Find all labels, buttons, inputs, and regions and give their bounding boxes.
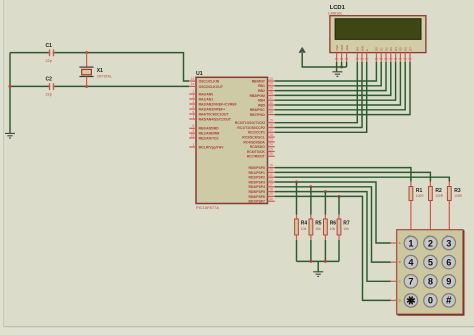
- svg-text:40: 40: [269, 110, 273, 114]
- wire: R7 bottom lead to rail: [338, 240, 340, 261]
- U1 right pin 35 RB2: [258, 86, 275, 93]
- svg-text:RD4/PSP4: RD4/PSP4: [248, 185, 265, 189]
- wire: LCD VEE down: [346, 62, 348, 67]
- wire: C2 net from left rail to OSC2: [10, 85, 189, 87]
- svg-text:3: 3: [193, 95, 195, 99]
- wire: RD2 to R3 column 3: [275, 177, 450, 181]
- svg-text:RD2/PSP2: RD2/PSP2: [248, 176, 265, 180]
- LCD1 pin E: [365, 49, 369, 62]
- svg-text:VSS: VSS: [335, 45, 339, 51]
- wire: LCD D3 to RB3: [275, 62, 391, 96]
- sheet border bottom: [4, 326, 474, 328]
- capacitor C2: [50, 84, 53, 88]
- svg-text:CRYSTAL: CRYSTAL: [97, 75, 112, 79]
- keypad button 3: [442, 236, 455, 249]
- svg-text:7: 7: [193, 115, 195, 119]
- node: junction C1 net / crystal top: [85, 51, 88, 54]
- wire: LCD RS to RC0: [275, 62, 358, 123]
- U1 right pin 29 RD6/PSP6: [248, 192, 274, 199]
- svg-text:13: 13: [191, 77, 195, 81]
- U1 right pin 40 RB7/PGD: [250, 110, 275, 117]
- svg-text:X1: X1: [97, 68, 103, 74]
- U1 right pin 15 RC0/T1OSO/T1CKI: [235, 119, 275, 126]
- svg-text:A: A: [399, 241, 401, 245]
- svg-text:D1: D1: [380, 47, 384, 51]
- svg-text:D6: D6: [404, 47, 408, 51]
- svg-text:RA5/AN4/SS/C2OUT: RA5/AN4/SS/C2OUT: [199, 117, 232, 121]
- power terminal arrow (+5V): [299, 47, 305, 52]
- svg-text:RS: RS: [356, 47, 360, 51]
- svg-text:B: B: [399, 260, 401, 264]
- wire: LCD E to RC2: [275, 62, 367, 133]
- svg-text:R4: R4: [301, 221, 308, 227]
- svg-text:28: 28: [269, 187, 273, 191]
- keypad row pin D: [391, 299, 402, 303]
- svg-text:C2: C2: [46, 76, 53, 82]
- svg-text:R6: R6: [330, 221, 337, 227]
- capacitor C1: [50, 51, 53, 55]
- wire: LCD D2 to RB2: [275, 62, 386, 91]
- U1 right pin 38 RB5: [258, 101, 275, 108]
- svg-text:RB5: RB5: [258, 103, 265, 107]
- svg-text:RA4/T0CKI/C1OUT: RA4/T0CKI/C1OUT: [199, 112, 230, 116]
- keypad row pin C: [391, 279, 402, 283]
- svg-text:RC0/T1OSO/T1CKI: RC0/T1OSO/T1CKI: [235, 121, 265, 125]
- svg-text:34: 34: [269, 82, 273, 86]
- keypad row pin A: [391, 241, 401, 245]
- svg-text:100R: 100R: [454, 194, 462, 198]
- svg-text:8: 8: [428, 277, 433, 287]
- svg-text:10: 10: [191, 134, 195, 138]
- wire: R5 top lead drop: [310, 187, 312, 215]
- ground (keypad pulldowns): [313, 272, 323, 277]
- wire: R2 to keypad column: [429, 206, 431, 230]
- U1 left pin 14 OSC2/CLKOUT: [189, 82, 224, 89]
- LCD1 pin RW: [360, 46, 364, 62]
- svg-text:RA0/AN0: RA0/AN0: [199, 92, 214, 96]
- svg-text:10k: 10k: [343, 227, 349, 231]
- svg-text:RB3/PGM: RB3/PGM: [249, 94, 265, 98]
- svg-text:RA2/AN2/VREF-/CVREF: RA2/AN2/VREF-/CVREF: [199, 102, 237, 106]
- LCD1 pin D5: [399, 47, 403, 62]
- LCD1 pin VSS: [335, 45, 339, 62]
- svg-text:RB4: RB4: [258, 99, 265, 103]
- U1 right pin 36 RB3/PGM: [249, 91, 274, 98]
- U1 right pin 37 RB4: [258, 96, 275, 103]
- svg-text:D5: D5: [399, 47, 403, 51]
- svg-text:14: 14: [191, 82, 195, 86]
- svg-text:RD5/PSP5: RD5/PSP5: [248, 190, 265, 194]
- svg-text:RD3/PSP3: RD3/PSP3: [248, 180, 265, 184]
- LCD1 pin D1: [380, 47, 384, 62]
- resistor R1 100R: [409, 182, 424, 206]
- resistor R6 10k: [324, 215, 337, 241]
- svg-text:RD6/PSP6: RD6/PSP6: [248, 195, 265, 199]
- node: junction rail R6: [324, 260, 327, 263]
- LCD1 screen: [335, 19, 421, 40]
- node: junction R4 on RD wire: [295, 181, 298, 184]
- wire: LCD D5 to RB5: [275, 62, 401, 105]
- wire: LCD VDD stub down: [341, 62, 343, 67]
- resistor R4 10k: [295, 215, 308, 241]
- svg-text:OSC1/CLKIN: OSC1/CLKIN: [199, 79, 220, 83]
- node: junction rail R5: [309, 260, 312, 263]
- svg-text:U1: U1: [196, 71, 203, 77]
- LCD1 pin D0: [375, 47, 379, 62]
- U1 left pin 9 RE1/AN6/WR: [189, 129, 220, 136]
- U1 right pin 21 RD2/PSP2: [248, 173, 274, 180]
- resistor R3 100R: [447, 182, 462, 206]
- svg-text:35: 35: [269, 86, 273, 90]
- U1 right pin 16 RC1/T1OSI/CCP2: [237, 123, 274, 130]
- U1 right pin 17 RC2/CCP1: [248, 128, 275, 135]
- svg-text:1: 1: [408, 238, 413, 248]
- resistor R5 10k: [309, 215, 322, 241]
- U1 left pin 13 OSC1/CLKIN: [189, 77, 219, 84]
- U1 left pin 3 RA1/AN1: [189, 95, 213, 102]
- wire: power rail to arrow: [302, 53, 346, 67]
- resistor R7 10k: [337, 215, 350, 241]
- svg-text:9: 9: [446, 277, 451, 287]
- svg-text:RC6/TX/CK: RC6/TX/CK: [247, 150, 265, 154]
- node: junction C2 net / left rail: [9, 85, 12, 88]
- svg-text:18: 18: [269, 133, 273, 137]
- svg-text:RB1: RB1: [258, 84, 265, 88]
- sheet margin strips: [0, 0, 4, 335]
- svg-text:OSC2/CLKOUT: OSC2/CLKOUT: [199, 85, 224, 89]
- svg-text:15: 15: [269, 119, 273, 123]
- U1 right pin 28 RD5/PSP5: [248, 187, 274, 194]
- svg-text:8: 8: [193, 124, 195, 128]
- U1 right pin 24 RC5/SDO: [250, 143, 275, 150]
- keypad button 4: [404, 255, 417, 268]
- keypad button 7: [404, 275, 417, 288]
- svg-text:4: 4: [193, 100, 195, 104]
- svg-text:VDD: VDD: [340, 44, 344, 51]
- svg-text:VEE: VEE: [345, 45, 349, 51]
- wire: LCD D4 to RB4: [275, 62, 396, 100]
- wire: pulldown ground rail: [297, 260, 340, 262]
- U1 right pin 18 RC3/SCK/SCL: [242, 133, 274, 140]
- svg-text:19: 19: [269, 163, 273, 167]
- node: junction C2 net / crystal bottom: [85, 85, 88, 88]
- crystal X1: [79, 53, 93, 87]
- svg-text:2: 2: [193, 90, 195, 94]
- svg-text:RD1/PSP1: RD1/PSP1: [248, 171, 265, 175]
- keypad button hash: [442, 294, 455, 307]
- U1 left pin 4 RA2/AN2/VREF-/CVREF: [189, 100, 236, 107]
- U1 left pin 10 RE2/AN7/CS: [189, 134, 219, 141]
- svg-text:4: 4: [408, 257, 414, 267]
- wire: RD3 to keypad row A: [275, 182, 391, 243]
- svg-text:10k: 10k: [315, 227, 321, 231]
- U1 right pin 33 RB0/INT: [252, 77, 275, 84]
- keypad row pin B: [391, 260, 401, 264]
- wire: R4 top lead drop: [296, 182, 298, 215]
- svg-text:100R: 100R: [416, 194, 424, 198]
- keypad button 1: [404, 236, 417, 249]
- node: junction R7 on RD wire: [338, 195, 341, 198]
- LCD1 pin D6: [404, 47, 408, 62]
- svg-text:RW: RW: [360, 46, 364, 51]
- LCD1 pin D7: [408, 47, 412, 62]
- U1 right pin 23 RC4/SDI/SDA: [243, 138, 274, 145]
- U1 left pin 7 RA5/AN4/SS/C2OUT: [189, 115, 232, 122]
- U1 right pin 30 RD7/PSP7: [248, 197, 274, 204]
- wire: LCD D6 to RB6: [275, 62, 406, 110]
- wire: LCD VSS to ground: [336, 62, 338, 72]
- svg-text:100R: 100R: [435, 194, 443, 198]
- ground (LCD VSS): [332, 72, 342, 77]
- svg-text:39: 39: [269, 106, 273, 110]
- wire: rail to ground: [317, 261, 319, 271]
- svg-text:RE1/AN6/WR: RE1/AN6/WR: [199, 132, 220, 136]
- svg-text:RC4/SDI/SDA: RC4/SDI/SDA: [243, 140, 265, 144]
- svg-text:38: 38: [269, 101, 273, 105]
- svg-text:RC3/SCK/SCL: RC3/SCK/SCL: [242, 136, 265, 140]
- svg-text:24: 24: [269, 143, 273, 147]
- wire: R5 bottom lead to rail: [310, 240, 312, 261]
- svg-text:RB2: RB2: [258, 89, 265, 93]
- svg-text:21: 21: [269, 173, 273, 177]
- U1 left pin 8 RE0/AN5/RD: [189, 124, 219, 131]
- U1 right pin 22 RD3/PSP3: [248, 178, 274, 185]
- svg-text:37: 37: [269, 96, 273, 100]
- wire: C1 net from left rail to OSC1: [10, 53, 189, 81]
- wire: RD6 to keypad row D: [275, 196, 391, 300]
- svg-text:33: 33: [269, 77, 273, 81]
- svg-text:D4: D4: [394, 47, 398, 51]
- svg-text:36: 36: [269, 91, 273, 95]
- svg-text:RE2/AN7/CS: RE2/AN7/CS: [199, 136, 220, 140]
- wire: LCD D7 to RB7: [275, 62, 410, 115]
- ground (left rail): [5, 133, 15, 138]
- U1 left pin 2 RA0/AN0: [189, 90, 213, 97]
- svg-text:D3: D3: [389, 47, 393, 51]
- svg-text:20: 20: [269, 168, 273, 172]
- svg-text:3: 3: [446, 238, 451, 248]
- svg-text:0: 0: [428, 296, 433, 306]
- svg-text:RD0/PSP0: RD0/PSP0: [248, 166, 265, 170]
- svg-text:RB7/PGD: RB7/PGD: [250, 113, 266, 117]
- wire: LCD D0 to RB0: [275, 62, 377, 81]
- svg-text:RC1/T1OSI/CCP2: RC1/T1OSI/CCP2: [237, 126, 265, 130]
- LCD1 pin D2: [384, 47, 388, 62]
- svg-text:10k: 10k: [330, 227, 336, 231]
- U1 right pin 26 RC7/RX/DT: [247, 152, 275, 159]
- svg-text:RC7/RX/DT: RC7/RX/DT: [247, 155, 266, 159]
- svg-text:30: 30: [269, 197, 273, 201]
- svg-text:RB6/PGC: RB6/PGC: [250, 108, 266, 112]
- svg-text:RE0/AN5/RD: RE0/AN5/RD: [199, 127, 220, 131]
- keypad body: [397, 230, 463, 315]
- wire: RD1 to R2 column 2: [275, 172, 431, 181]
- wire: RD4 to keypad row B: [275, 187, 391, 262]
- svg-text:25: 25: [269, 147, 273, 151]
- svg-text:RB0/INT: RB0/INT: [252, 79, 266, 83]
- keypad button star: [404, 294, 417, 307]
- svg-text:23: 23: [269, 138, 273, 142]
- svg-text:D7: D7: [408, 47, 412, 51]
- svg-text:6: 6: [446, 257, 451, 267]
- U1 right pin 34 RB1: [258, 82, 275, 89]
- resistor R2 100R: [429, 182, 444, 206]
- svg-text:RC2/CCP1: RC2/CCP1: [248, 131, 265, 135]
- svg-text:1: 1: [193, 143, 195, 147]
- svg-text:#: #: [446, 296, 452, 307]
- svg-text:E: E: [365, 49, 369, 51]
- node: junction VDD / power rail: [340, 66, 343, 69]
- svg-text:6: 6: [193, 110, 195, 114]
- keypad button 0: [424, 294, 437, 307]
- svg-text:22p: 22p: [46, 59, 52, 63]
- LCD1 pin VEE: [345, 45, 349, 62]
- svg-text:9: 9: [193, 129, 195, 133]
- op-amp U1 body (PIC16F877A microcontroller): [196, 77, 268, 203]
- wire: RD0 to R1 column 1: [275, 168, 411, 182]
- LCD1 body (LM016L): [330, 16, 426, 53]
- node: junction R5 on RD wire: [309, 185, 312, 188]
- U1 left pin 1 MCLR/Vpp/THV: [189, 143, 224, 150]
- keypad button 2: [424, 236, 437, 249]
- wire: R6 top lead drop: [324, 192, 326, 215]
- svg-text:7: 7: [408, 277, 413, 287]
- wire: LCD RW to RC1: [275, 62, 362, 128]
- svg-text:RA1/AN1: RA1/AN1: [199, 97, 214, 101]
- svg-text:RC5/SDO: RC5/SDO: [250, 145, 265, 149]
- sheet border left: [3, 0, 5, 327]
- svg-text:16: 16: [269, 123, 273, 127]
- svg-text:26: 26: [269, 152, 273, 156]
- svg-text:5: 5: [193, 105, 195, 109]
- LCD1 pin D4: [394, 47, 398, 62]
- U1 right pin 25 RC6/TX/CK: [247, 147, 275, 154]
- wire: left vertical rail to ground: [9, 53, 11, 133]
- wire: R3 to keypad column: [448, 206, 450, 230]
- wire: R4 bottom lead to rail: [296, 240, 298, 261]
- svg-text:22: 22: [269, 178, 273, 182]
- LCD1 pin D3: [389, 47, 393, 62]
- svg-text:D2: D2: [384, 47, 388, 51]
- LCD1 pin VDD: [340, 44, 344, 62]
- keypad button 9: [442, 275, 455, 288]
- svg-text:R5: R5: [315, 221, 322, 227]
- svg-text:RD7/PSP7: RD7/PSP7: [248, 200, 265, 204]
- keypad button 8: [424, 275, 437, 288]
- svg-text:C1: C1: [46, 43, 53, 49]
- U1 left pin 5 RA3/AN3/VREF+: [189, 105, 225, 112]
- node: junction R6 on RD wire: [324, 190, 327, 193]
- svg-text:17: 17: [269, 128, 273, 132]
- svg-text:22p: 22p: [46, 92, 52, 96]
- svg-text:27: 27: [269, 183, 273, 187]
- U1 right pin 20 RD1/PSP1: [248, 168, 274, 175]
- U1 right pin 27 RD4/PSP4: [248, 183, 274, 190]
- svg-text:RA3/AN3/VREF+: RA3/AN3/VREF+: [199, 107, 225, 111]
- wire: RD5 to keypad row C: [275, 192, 391, 282]
- U1 right pin 19 RD0/PSP0: [248, 163, 274, 170]
- wire: R1 to keypad column: [410, 206, 412, 230]
- LCD1 pin RS: [356, 47, 360, 62]
- svg-text:10k: 10k: [301, 227, 307, 231]
- wire: R7 top lead drop: [338, 196, 340, 214]
- svg-text:MCLR/Vpp/THV: MCLR/Vpp/THV: [199, 145, 225, 149]
- svg-text:5: 5: [428, 257, 433, 267]
- keypad shadow edges: [398, 230, 464, 315]
- svg-text:D0: D0: [375, 47, 379, 51]
- svg-text:LM016L: LM016L: [328, 10, 343, 15]
- keypad button 5: [424, 255, 437, 268]
- svg-text:29: 29: [269, 192, 273, 196]
- svg-text:R7: R7: [343, 221, 350, 227]
- keypad button 6: [442, 255, 455, 268]
- svg-text:2: 2: [428, 238, 433, 248]
- wire: LCD D1 to RB1: [275, 62, 382, 86]
- wire: R6 bottom lead to rail: [324, 240, 326, 261]
- U1 left pin 6 RA4/T0CKI/C1OUT: [189, 110, 229, 117]
- svg-text:PIC16F877A: PIC16F877A: [196, 205, 219, 210]
- U1 right pin 39 RB6/PGC: [250, 106, 275, 113]
